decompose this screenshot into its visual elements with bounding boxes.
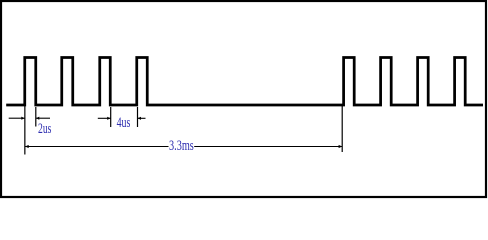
wire: 2us dimension leader left	[9, 117, 25, 119]
node: extension line at second burst start (3.3ms right)	[341, 106, 343, 152]
wire: 2us arrowhead right-pointing	[21, 117, 24, 120]
wire: 3.3ms arrowhead right-pointing	[339, 145, 343, 148]
svg-text:2us: 2us	[38, 120, 51, 137]
wire: pulse train waveform	[6, 58, 483, 106]
node: extension line at pulse 1 rising edge (2us left tick / 3.3ms left)	[24, 106, 26, 155]
wire: 3.3ms dimension line left segment	[25, 146, 168, 148]
svg-text:4us: 4us	[117, 114, 131, 131]
wire: 3.3ms arrowhead left-pointing	[25, 145, 29, 148]
wire: 4us dimension leader left	[98, 117, 111, 119]
node: 4us right tick (pulse 4 rising edge)	[137, 107, 139, 127]
wire: 4us arrowhead left-pointing	[138, 117, 141, 120]
svg-text:3.3ms: 3.3ms	[169, 137, 194, 154]
wire: 3.3ms dimension line right segment	[194, 146, 342, 148]
wire: 4us dimension leader right	[138, 117, 146, 119]
node: 4us left tick (pulse 3 falling edge)	[110, 107, 112, 127]
wire: 2us dimension leader right	[36, 117, 50, 119]
wire: 2us arrowhead left-pointing	[36, 117, 39, 120]
wire: 4us arrowhead right-pointing	[107, 117, 110, 120]
node: 2us right tick (pulse 1 falling edge)	[35, 107, 37, 127]
